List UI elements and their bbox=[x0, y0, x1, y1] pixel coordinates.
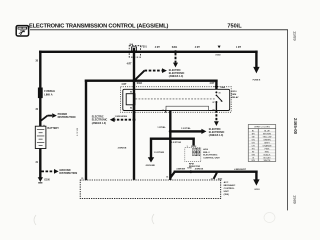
wire: mid horizontal feed bbox=[85, 80, 218, 82]
svg-text:1 RT/BL: 1 RT/BL bbox=[157, 127, 166, 129]
svg-text:4 RT: 4 RT bbox=[195, 46, 201, 49]
svg-text:YELLOW: YELLOW bbox=[263, 136, 272, 138]
svg-text:(358): (358) bbox=[224, 194, 229, 196]
svg-text:15: 15 bbox=[133, 177, 135, 179]
ground distribution arrow bbox=[41, 169, 77, 175]
arrow relay output to electric electronic bbox=[214, 111, 219, 127]
svg-text:750iL: 750iL bbox=[227, 24, 242, 30]
splice S301 bbox=[174, 50, 177, 53]
arrow junction1 to electric electronic bbox=[170, 128, 224, 137]
junction coil return bbox=[133, 118, 136, 121]
relay inner bar bbox=[166, 106, 209, 110]
section icon 7 bbox=[16, 26, 28, 37]
relay coil bbox=[126, 94, 135, 105]
fusible link A bbox=[38, 88, 43, 99]
svg-text:RPM: RPM bbox=[189, 163, 194, 165]
svg-text:31: 31 bbox=[81, 178, 83, 180]
svg-text:UNIT: UNIT bbox=[224, 191, 230, 193]
svg-text:4 RT: 4 RT bbox=[127, 62, 133, 65]
junction 2 bbox=[169, 137, 172, 140]
title underline bbox=[30, 28, 288, 31]
svg-text:CONTROL: CONTROL bbox=[224, 188, 235, 190]
wire: right drop to relay bbox=[215, 80, 217, 90]
fuse F301 dashed box bbox=[129, 43, 147, 57]
wire: branch right to resistor box bbox=[170, 138, 195, 146]
svg-text:CONTROL UNIT: CONTROL UNIT bbox=[203, 157, 220, 159]
svg-text:4 RT: 4 RT bbox=[210, 82, 216, 85]
wire: coil return down bbox=[133, 105, 135, 180]
svg-text:4 RT: 4 RT bbox=[155, 46, 161, 49]
relay K210 box bbox=[123, 89, 230, 110]
svg-text:GN: GN bbox=[252, 139, 256, 141]
svg-text:S301: S301 bbox=[172, 47, 178, 49]
svg-text:DISTRIBUTION: DISTRIBUTION bbox=[58, 116, 76, 119]
wire: branch left with down arrow bbox=[146, 138, 171, 168]
wire: bottom ground bus bbox=[174, 171, 258, 173]
svg-text:AGS: AGS bbox=[203, 148, 208, 151]
svg-text:SW: SW bbox=[252, 154, 255, 156]
pin tick on module edge bbox=[165, 110, 166, 113]
svg-text:0.75 SW: 0.75 SW bbox=[77, 128, 79, 136]
junction fuse/bus bbox=[133, 50, 136, 53]
svg-text:30A: 30A bbox=[129, 43, 133, 46]
svg-text:16: 16 bbox=[166, 177, 168, 179]
svg-text:1989: 1989 bbox=[293, 195, 298, 205]
svg-text:DISTRIBUTION: DISTRIBUTION bbox=[59, 172, 77, 175]
svg-text:30: 30 bbox=[218, 92, 220, 94]
svg-text:11/89: 11/89 bbox=[293, 31, 298, 41]
svg-text:BATTERY: BATTERY bbox=[47, 127, 59, 130]
wire: left battery feed vertical bbox=[39, 51, 41, 178]
arrow fuse branch to electric electronic bbox=[135, 68, 167, 80]
svg-text:1.5 RT/GE: 1.5 RT/GE bbox=[171, 142, 181, 144]
svg-text:GROUND: GROUND bbox=[146, 165, 156, 167]
svg-text:K210: K210 bbox=[231, 91, 237, 93]
svg-text:RELAY: RELAY bbox=[231, 96, 239, 99]
battery G1 bbox=[35, 124, 59, 148]
svg-text:MECHANIC: MECHANIC bbox=[224, 184, 236, 187]
svg-text:4 BR/GE: 4 BR/GE bbox=[195, 168, 204, 171]
svg-text:PINK: PINK bbox=[265, 148, 270, 150]
svg-text:VIOLET: VIOLET bbox=[263, 157, 271, 159]
splice S302 bbox=[132, 79, 135, 82]
svg-text:BROWN: BROWN bbox=[263, 133, 271, 135]
svg-text:OR: OR bbox=[252, 145, 256, 147]
arrow S301 to electric electronic bbox=[169, 53, 185, 78]
relay module dotted box bbox=[121, 87, 232, 113]
wire: left drop to control unit bbox=[85, 80, 87, 181]
svg-text:WS: WS bbox=[252, 160, 256, 162]
svg-text:ELECTRONIC TRANSMISSION CONTRO: ELECTRONIC TRANSMISSION CONTROL (AEGS/EM… bbox=[29, 24, 169, 30]
svg-text:RED: RED bbox=[265, 151, 270, 153]
svg-text:WIRE COLORS: WIRE COLORS bbox=[254, 127, 270, 129]
svg-text:1 BR/GE/WS: 1 BR/GE/WS bbox=[115, 116, 128, 118]
arrow to fuse 8 bbox=[253, 67, 259, 74]
svg-text:BLACK: BLACK bbox=[264, 153, 271, 156]
svg-text:X160: X160 bbox=[215, 55, 221, 57]
svg-text:BLUE: BLUE bbox=[264, 130, 270, 132]
wire: relay switched output vertical bbox=[169, 111, 171, 181]
wire: bus right end drop bbox=[255, 51, 257, 68]
junction 1 bbox=[169, 130, 172, 133]
svg-text:(AMEGS 1.3): (AMEGS 1.3) bbox=[169, 75, 184, 78]
wire: fuse drop vertical bbox=[133, 48, 135, 120]
relay contact bbox=[212, 91, 222, 111]
svg-text:EML 2: EML 2 bbox=[203, 152, 210, 154]
diagonal into bus bbox=[170, 172, 175, 179]
svg-text:G100: G100 bbox=[44, 180, 50, 182]
svg-text:G103: G103 bbox=[254, 189, 260, 191]
wire: bus right end drop with arrow bbox=[255, 171, 257, 181]
svg-text:EKM: EKM bbox=[231, 94, 236, 96]
connector X460 bbox=[215, 86, 219, 87]
wire: top supply bus bbox=[39, 51, 258, 53]
control unit dashed box bbox=[80, 180, 221, 199]
svg-text:FUSE 8: FUSE 8 bbox=[253, 80, 261, 82]
svg-text:1.5 RT/BL: 1.5 RT/BL bbox=[181, 128, 191, 130]
svg-text:S760: S760 bbox=[187, 168, 191, 170]
power distribution arrow bbox=[40, 113, 75, 121]
svg-text:LINK A: LINK A bbox=[44, 94, 52, 97]
svg-text:85: 85 bbox=[130, 108, 132, 110]
svg-text:ORANGE: ORANGE bbox=[262, 144, 272, 147]
svg-text:GREEN: GREEN bbox=[263, 139, 271, 141]
svg-text:4 BR/GE/RT: 4 BR/GE/RT bbox=[234, 168, 246, 171]
ground G100 bbox=[38, 177, 51, 183]
relay mechanical link dashed bbox=[135, 98, 214, 100]
connector X160 on bus bbox=[218, 46, 221, 49]
svg-text:15: 15 bbox=[162, 110, 164, 112]
svg-text:WHITE: WHITE bbox=[264, 160, 271, 162]
svg-text:87: 87 bbox=[212, 102, 214, 104]
svg-text:2 BR/GE: 2 BR/GE bbox=[118, 147, 127, 149]
fork diagonal into control unit bbox=[214, 172, 217, 179]
svg-text:1 RT: 1 RT bbox=[236, 47, 242, 49]
svg-text:7: 7 bbox=[20, 30, 24, 37]
svg-text:S302: S302 bbox=[137, 83, 143, 85]
svg-text:ACC: ACC bbox=[224, 181, 229, 184]
svg-text:2465-00: 2465-00 bbox=[293, 118, 298, 135]
svg-text:ELECTRONIC: ELECTRONIC bbox=[203, 155, 218, 157]
svg-text:GR: GR bbox=[252, 142, 256, 144]
svg-text:4 BR/SW: 4 BR/SW bbox=[176, 168, 185, 171]
svg-text:(AMEGS 1.3): (AMEGS 1.3) bbox=[209, 134, 224, 137]
svg-text:1.5 RT/SW: 1.5 RT/SW bbox=[154, 152, 164, 154]
page right border bbox=[286, 29, 289, 210]
wire colors legend table bbox=[248, 125, 276, 162]
svg-text:87: 87 bbox=[212, 109, 214, 111]
svg-text:86: 86 bbox=[130, 92, 132, 94]
svg-text:4 RT: 4 RT bbox=[121, 83, 127, 86]
faint pencil marks bbox=[34, 215, 36, 225]
svg-text:BR: BR bbox=[252, 133, 255, 135]
svg-text:F301: F301 bbox=[142, 47, 148, 49]
svg-text:GREY: GREY bbox=[264, 142, 271, 144]
svg-text:(AMEGS 1.3): (AMEGS 1.3) bbox=[92, 122, 107, 125]
arrow coil return to electric electronic bbox=[92, 115, 131, 125]
rpm resistor dotted box bbox=[185, 148, 201, 162]
